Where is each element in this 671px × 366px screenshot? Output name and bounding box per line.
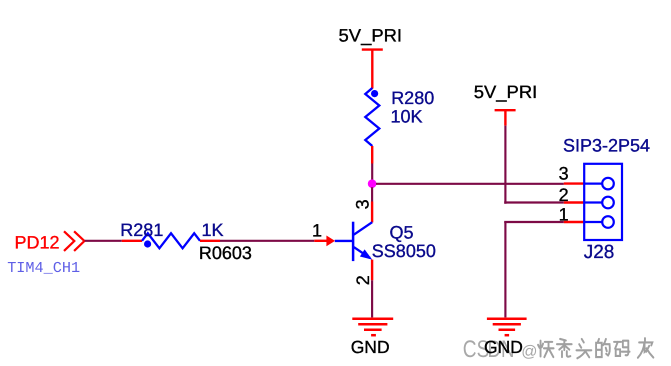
- svg-text:3: 3: [559, 164, 569, 184]
- svg-text:5V_PRI: 5V_PRI: [474, 82, 538, 102]
- watermark CJK characters (hand-drawn strokes): [538, 338, 653, 358]
- svg-text:3: 3: [353, 199, 373, 209]
- pin stub connector pin 3: [564, 182, 584, 184]
- resistor R281: [142, 233, 200, 248]
- wire node A to Q5 collector: [371, 187, 373, 201]
- wire power stem (right): [504, 110, 506, 125]
- svg-text:@: @: [521, 344, 537, 361]
- wire emitter to ground: [371, 280, 373, 317]
- wire R280 to node A: [371, 164, 373, 181]
- wire to connector pin 2: [504, 201, 564, 203]
- resistor R280: [365, 88, 379, 146]
- wire port PD12 to R281: [85, 240, 122, 242]
- wire Q5 collector pin stub: [371, 202, 373, 223]
- wire node A to connector pin 3: [376, 183, 564, 185]
- power symbol 5V_PRI bar (right): [495, 109, 516, 111]
- wire R281 pin 1 stub: [122, 240, 142, 242]
- transistor Q5: [335, 222, 372, 261]
- svg-text:SIP3-2P54: SIP3-2P54: [563, 136, 650, 156]
- wire Q5 base pin stub: [314, 240, 327, 242]
- svg-text:1K: 1K: [202, 220, 224, 240]
- base pin arrow: [326, 236, 335, 247]
- wire pin 1 down to ground: [504, 222, 506, 317]
- svg-text:PD12: PD12: [15, 233, 60, 253]
- wire Q5 emitter pin stub: [371, 260, 373, 281]
- svg-text:2: 2: [353, 275, 373, 285]
- wire power stem to R280 pin 1: [371, 50, 373, 89]
- svg-text:J28: J28: [584, 242, 615, 263]
- svg-text:1: 1: [312, 221, 322, 241]
- svg-text:R280: R280: [391, 88, 434, 108]
- port PD12: [15, 231, 85, 252]
- wire R281 to Q5 base: [220, 240, 314, 242]
- connector J28: [584, 164, 622, 240]
- svg-text:GND: GND: [484, 337, 523, 357]
- svg-text:1: 1: [559, 204, 569, 224]
- svg-text:2: 2: [559, 185, 569, 205]
- wire 5V_PRI down to pin 2 row: [504, 126, 506, 204]
- svg-text:Q5: Q5: [390, 223, 414, 243]
- svg-text:R281: R281: [120, 220, 163, 240]
- pin stub connector pin 2: [564, 201, 584, 203]
- node A junction dot: [368, 179, 377, 188]
- watermark CSDN@ gray latin text: [463, 336, 538, 363]
- ground symbol (left): [352, 319, 393, 336]
- svg-text:10K: 10K: [391, 107, 423, 127]
- svg-text:5V_PRI: 5V_PRI: [339, 26, 403, 46]
- ground symbol (right): [487, 319, 527, 336]
- svg-text:R0603: R0603: [199, 243, 252, 263]
- wire connector pin 1 row: [504, 221, 564, 223]
- wire R280 pin 2 stub: [371, 146, 373, 164]
- pin stub connector pin 1: [564, 221, 584, 223]
- power symbol 5V_PRI bar (top): [362, 48, 383, 50]
- svg-text:SS8050: SS8050: [372, 241, 436, 261]
- wire R281 pin 2 stub: [200, 240, 220, 242]
- svg-text:GND: GND: [351, 337, 390, 357]
- svg-text:TIM4_CH1: TIM4_CH1: [7, 259, 80, 277]
